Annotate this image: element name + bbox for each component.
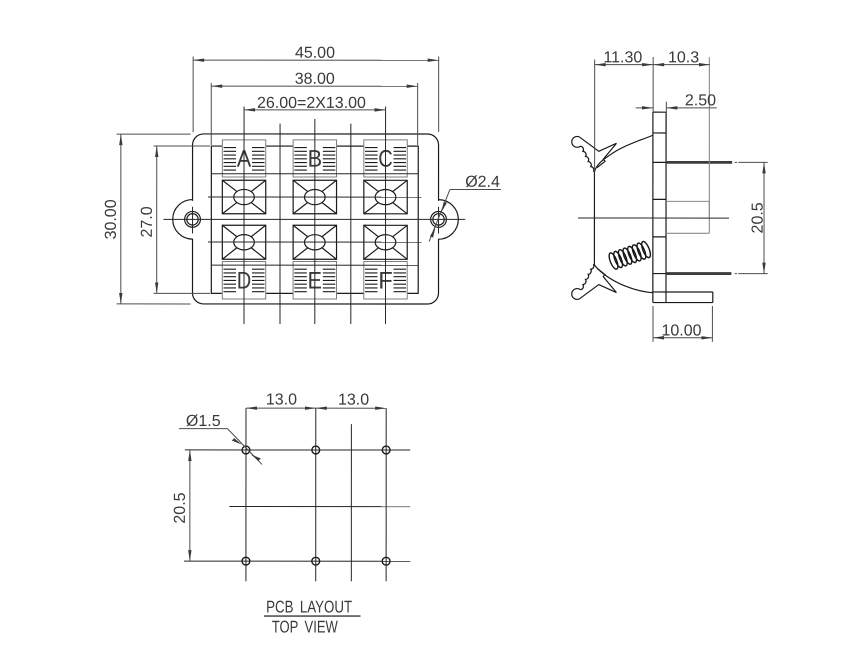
- pcb hole 1: [242, 446, 250, 454]
- terminal D hatch: [224, 269, 265, 292]
- svg-text:27.0: 27.0: [139, 206, 156, 237]
- terminal C body: [364, 140, 407, 177]
- main horizontal centerline: [163, 218, 465, 220]
- pcb hole 2: [312, 446, 320, 454]
- terminal F hatch: [365, 269, 406, 292]
- body outline front view: [193, 134, 439, 304]
- cell divider vertical 1: [279, 124, 281, 324]
- side view body arc bottom: [594, 265, 653, 293]
- row centerline upper contacts: [208, 196, 422, 198]
- dimension 13.0 right: [316, 392, 386, 409]
- title TOP VIEW: [272, 617, 338, 636]
- svg-text:45.00: 45.00: [295, 45, 335, 62]
- side view center boss: [666, 201, 709, 233]
- pcb grid vertical line extra: [350, 424, 352, 581]
- row boundary line upper: [211, 173, 418, 175]
- contact cell lower x315: [293, 225, 336, 259]
- contact cell lower x244: [222, 225, 265, 259]
- terminal label F: [378, 267, 393, 294]
- pcb hole 6: [382, 557, 390, 565]
- svg-text:13.0: 13.0: [266, 392, 297, 409]
- row boundary line lower: [211, 264, 418, 266]
- side view mounting foot: [666, 292, 713, 303]
- terminal label A: [237, 146, 252, 173]
- mounting hole right: [431, 207, 447, 234]
- dimension 13.0 left: [246, 392, 316, 409]
- dimension 10.3: [653, 49, 710, 217]
- svg-text:30.00: 30.00: [103, 199, 120, 239]
- terminal A hatch: [224, 148, 265, 171]
- terminal label C: [378, 146, 393, 173]
- dimension 26.00=2X13.00: [244, 95, 386, 112]
- side view body left edge: [593, 172, 595, 265]
- svg-text:TOP VIEW: TOP VIEW: [272, 617, 338, 636]
- svg-text:20.5: 20.5: [750, 202, 767, 233]
- pcb grid vertical line col1: [245, 408, 247, 581]
- inner rectangle: [211, 146, 418, 293]
- dimension 30.00: [103, 134, 191, 304]
- retaining clip top: [572, 136, 617, 171]
- svg-text:11.30: 11.30: [603, 49, 642, 66]
- cell divider vertical 2: [350, 124, 352, 324]
- dimension 38.00: [211, 71, 417, 145]
- spring coil: [607, 240, 652, 270]
- svg-text:38.00: 38.00: [295, 71, 335, 88]
- retaining clip bottom: [572, 264, 617, 299]
- terminal B hatch: [294, 148, 335, 171]
- svg-text:10.00: 10.00: [661, 322, 701, 339]
- dimension 10.00: [653, 306, 712, 342]
- pcb hole 5: [312, 557, 320, 565]
- svg-text:13.0: 13.0: [338, 392, 369, 409]
- pcb hole 3: [382, 446, 390, 454]
- terminal D body: [222, 261, 265, 299]
- terminal B body: [293, 140, 336, 177]
- terminal E hatch: [294, 269, 335, 292]
- side view horizontal centerline: [578, 217, 729, 219]
- contact cell upper x386: [364, 180, 407, 214]
- pcb grid horizontal line bottom: [184, 560, 410, 562]
- side view body arc top: [594, 135, 652, 172]
- dimension diameter 1.5 leader: [179, 413, 262, 465]
- terminal label D: [237, 267, 252, 294]
- svg-text:26.00=2X13.00: 26.00=2X13.00: [257, 95, 366, 112]
- contact cell upper x244: [222, 180, 265, 214]
- terminal C hatch: [365, 148, 406, 171]
- svg-text:Ø2.4: Ø2.4: [465, 174, 500, 191]
- svg-text:10.3: 10.3: [668, 49, 699, 66]
- terminal F body: [364, 261, 407, 299]
- centerline column C: [385, 106, 387, 324]
- svg-text:PCB LAYOUT: PCB LAYOUT: [266, 597, 352, 616]
- side view flange plate: [653, 112, 713, 302]
- dimension 2.50: [636, 92, 717, 133]
- terminal E body: [293, 261, 336, 299]
- dimension 45.00: [193, 45, 439, 132]
- pcb grid horizontal line middle: [229, 506, 410, 508]
- dimension 11.30: [595, 49, 654, 172]
- contact cell lower x386: [364, 225, 407, 259]
- contact cell upper x315: [293, 180, 336, 214]
- pin bottom: [666, 272, 768, 275]
- dimension 20.5 pcb: [172, 450, 190, 561]
- svg-text:20.5: 20.5: [172, 492, 189, 523]
- pcb grid vertical line col3: [385, 408, 387, 581]
- centerline column B: [314, 119, 316, 324]
- title PCB LAYOUT: [264, 597, 361, 616]
- terminal label B: [308, 146, 323, 173]
- mounting ear right: [439, 200, 459, 240]
- terminal A body: [222, 140, 265, 177]
- pcb hole 4: [242, 557, 250, 565]
- pcb grid vertical line col2: [315, 408, 317, 581]
- svg-text:2.50: 2.50: [685, 92, 716, 109]
- dimension 20.5: [750, 162, 767, 273]
- centerline column A: [243, 106, 245, 324]
- svg-text:Ø1.5: Ø1.5: [186, 413, 221, 430]
- pcb grid horizontal line top: [185, 449, 410, 451]
- mounting ear left: [173, 200, 193, 240]
- dimension diameter 2.4 leader: [429, 174, 501, 242]
- dimension 27.0: [139, 146, 210, 293]
- row centerline lower contacts: [208, 241, 422, 243]
- mounting hole left: [185, 207, 201, 234]
- terminal label E: [308, 267, 323, 294]
- pin top: [666, 161, 768, 164]
